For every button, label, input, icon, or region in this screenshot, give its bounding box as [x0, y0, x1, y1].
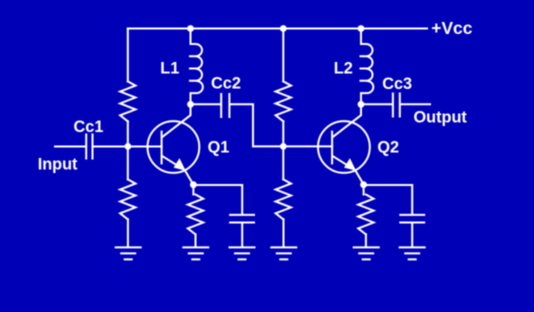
transistor Q2: base bar	[331, 132, 333, 164]
wire: stage-2 emitter resistor to ground	[365, 234, 367, 247]
transistor Q1: collector lead	[163, 104, 191, 137]
ground (stage-1 emitter resistor)	[183, 247, 208, 259]
wire: R2 bottom to ground	[127, 219, 129, 247]
transistor Q1: base bar	[161, 132, 163, 164]
junction node: rail / L1	[187, 25, 194, 32]
junction node: Q1 emitter	[190, 181, 197, 188]
wire: collector node to Cc2	[191, 103, 221, 105]
resistor (stage-1 upper bias)	[120, 81, 135, 121]
ground (stage-2 divider)	[271, 247, 296, 259]
resistor (stage-2 emitter)	[358, 195, 373, 235]
transistor Q1: emitter lead	[163, 156, 194, 185]
wire: stage-1 emitter node to resistor	[192, 185, 194, 195]
junction node: L1 / Q1 collector / Cc2	[187, 101, 194, 108]
transistor Q1: emitter arrow	[174, 158, 186, 171]
svg-text:Q2: Q2	[377, 139, 399, 157]
svg-text:Q1: Q1	[208, 138, 230, 156]
transistor Q2: emitter arrow	[344, 158, 356, 171]
capacitor Cc1	[86, 135, 92, 159]
transistor Q2: emitter lead	[333, 156, 364, 185]
wire: emitter resistor to ground	[195, 234, 197, 247]
junction node: rail / L2	[358, 25, 365, 32]
wire: L2/collector node to Cc3	[361, 103, 392, 105]
wire: +Vcc power rail	[128, 28, 427, 30]
wire: emitter node to bypass cap	[193, 185, 242, 214]
svg-text:L2: L2	[334, 59, 353, 77]
wire: stage-2 bypass cap to ground	[411, 223, 413, 247]
capacitor (stage-1 emitter bypass)	[230, 215, 254, 223]
wire: R1 bottom to base node	[127, 121, 129, 146]
wire: stage-2 emitter node to bypass cap	[364, 185, 413, 214]
junction node: rail / stage-2 divider	[280, 25, 287, 32]
wire: Cc1 to Q1 base	[93, 146, 161, 148]
svg-text:Cc3: Cc3	[382, 75, 412, 93]
resistor (stage-2 upper bias)	[276, 81, 291, 121]
transistor Q2: collector lead	[333, 104, 361, 137]
inductor L1	[190, 29, 203, 105]
junction node: Q1 base	[125, 143, 132, 150]
svg-text:Cc1: Cc1	[74, 118, 104, 136]
transistor Q2: body circle	[318, 121, 370, 173]
resistor (stage-1 lower bias)	[120, 179, 135, 219]
wire: stage-2 divider top (rail to R3)	[282, 29, 284, 82]
resistor (stage-2 lower bias)	[276, 179, 291, 219]
ground (stage-2 emitter resistor)	[354, 247, 379, 259]
svg-text:Input: Input	[38, 155, 78, 173]
junction node: Q2 base	[280, 143, 287, 150]
wire: input lead	[55, 146, 85, 148]
wire: stage-2 emitter node to resistor	[363, 185, 365, 195]
svg-text:Output: Output	[414, 108, 468, 126]
wire: R3 bottom to stage-2 base node	[282, 121, 284, 146]
svg-text:L1: L1	[160, 60, 179, 78]
capacitor (stage-2 emitter bypass)	[400, 215, 424, 223]
inductor L2	[361, 29, 374, 105]
capacitor Cc3	[393, 94, 400, 117]
ground (stage-1 bypass cap)	[230, 247, 255, 259]
wire: stage-1 divider top (rail to R1)	[127, 29, 129, 82]
transistor Q1: body circle	[148, 121, 200, 173]
junction node: Q2 emitter	[360, 181, 367, 188]
wire: Cc3 to output	[401, 103, 430, 105]
svg-text:Cc2: Cc2	[211, 74, 241, 92]
ground (stage-1 divider)	[116, 247, 141, 259]
wire: Cc2 to stage-2 base	[230, 104, 332, 146]
wire: bypass cap to ground	[241, 223, 243, 247]
wire: R4 bottom to ground	[283, 219, 285, 247]
junction node: L2 / Q2 collector / Cc3	[358, 101, 365, 108]
ground (stage-2 bypass cap)	[400, 247, 425, 259]
capacitor Cc2	[221, 94, 229, 117]
wire: stage-2 base node to lower bias resistor	[282, 146, 284, 179]
svg-text:+Vcc: +Vcc	[431, 18, 472, 38]
wire: base node to lower bias resistor	[127, 146, 129, 179]
resistor (stage-1 emitter)	[188, 195, 203, 235]
